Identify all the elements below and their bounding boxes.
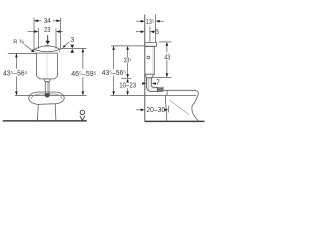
- dim 20-30: [136, 106, 168, 113]
- R 3/8 leader arrow: [24, 44, 34, 52]
- bowl-rim extension line: [15, 94, 87, 96]
- toilet bowl (side view): [163, 87, 198, 121]
- dim 5: [136, 30, 155, 33]
- cistern lid (front): [34, 45, 60, 52]
- cistern body (front): [37, 53, 58, 79]
- dim 3 arrows: [70, 45, 74, 53]
- cistern body (side): [145, 46, 155, 74]
- flush pipe (side): [147, 78, 158, 92]
- svg-text:10–23: 10–23: [119, 83, 136, 90]
- dim 13.5: [136, 20, 164, 23]
- flush valve collar: [44, 79, 51, 82]
- svg-text:34: 34: [44, 18, 51, 25]
- svg-text:33⁵: 33⁵: [124, 58, 132, 65]
- dim 46.5-59.5 right vertical line: [82, 48, 85, 95]
- dim 10-23: [126, 79, 129, 96]
- svg-text:3: 3: [70, 37, 74, 44]
- cistern taper (side): [145, 74, 155, 78]
- body centerline: [46, 54, 48, 79]
- svg-text:43⁵–56⁵: 43⁵–56⁵: [3, 71, 27, 78]
- dim 7: [142, 82, 156, 85]
- svg-text:13⁵: 13⁵: [146, 19, 154, 26]
- svg-text:46⁵–59⁵: 46⁵–59⁵: [71, 71, 96, 78]
- flush valve pipe: [45, 82, 49, 94]
- svg-text:43⁵–56⁵: 43⁵–56⁵: [102, 70, 126, 77]
- front extension line: [155, 15, 157, 43]
- floor line left diagram: [3, 120, 87, 122]
- svg-text:43: 43: [164, 55, 170, 62]
- wall line / back extension: [144, 15, 146, 122]
- floor line right diagram: [145, 120, 205, 122]
- dim 43 bottom extension line: [152, 76, 171, 78]
- dim 34 extension line right: [60, 18, 62, 49]
- svg-text:R ⅜: R ⅜: [13, 39, 24, 45]
- pipe spigot (dark seal): [157, 88, 163, 92]
- dim 23 extension line right: [55, 28, 57, 49]
- extension line flush-bend level: [121, 77, 131, 79]
- dim 23 arrows outside: [28, 30, 63, 33]
- pipe-center extension line: [149, 27, 151, 43]
- dim 34 line: [34, 20, 61, 23]
- dim 43 top extension line: [159, 41, 172, 43]
- dim 33.5 (side): [126, 46, 129, 78]
- lid-top extension line right: [61, 47, 87, 49]
- dim 3 leader arrow to lid edge: [63, 42, 70, 48]
- bolt circle: [147, 56, 150, 59]
- svg-text:7: 7: [156, 80, 160, 87]
- svg-text:23: 23: [44, 27, 50, 34]
- cistern lid (side): [145, 42, 157, 46]
- body-top extension line left: [8, 52, 37, 54]
- toilet bowl (front view): [29, 92, 65, 121]
- dim 43.5-56.5 (side): [112, 46, 115, 96]
- flush valve seal (dark): [45, 94, 49, 98]
- svg-text:5: 5: [155, 29, 159, 36]
- dim 34 extension line left: [33, 18, 35, 49]
- dim 43: [166, 42, 169, 78]
- lid-top extension line left (side): [111, 45, 145, 47]
- bowl-rim extension line (side): [111, 94, 164, 96]
- dim 23 extension line left: [37, 28, 39, 49]
- leader arrow to lid button: [46, 35, 50, 44]
- svg-text:20–30: 20–30: [146, 107, 165, 114]
- dim 43.5-56.5 left vertical line: [15, 53, 18, 95]
- floor datum symbol (circle + chevron): [80, 110, 85, 120]
